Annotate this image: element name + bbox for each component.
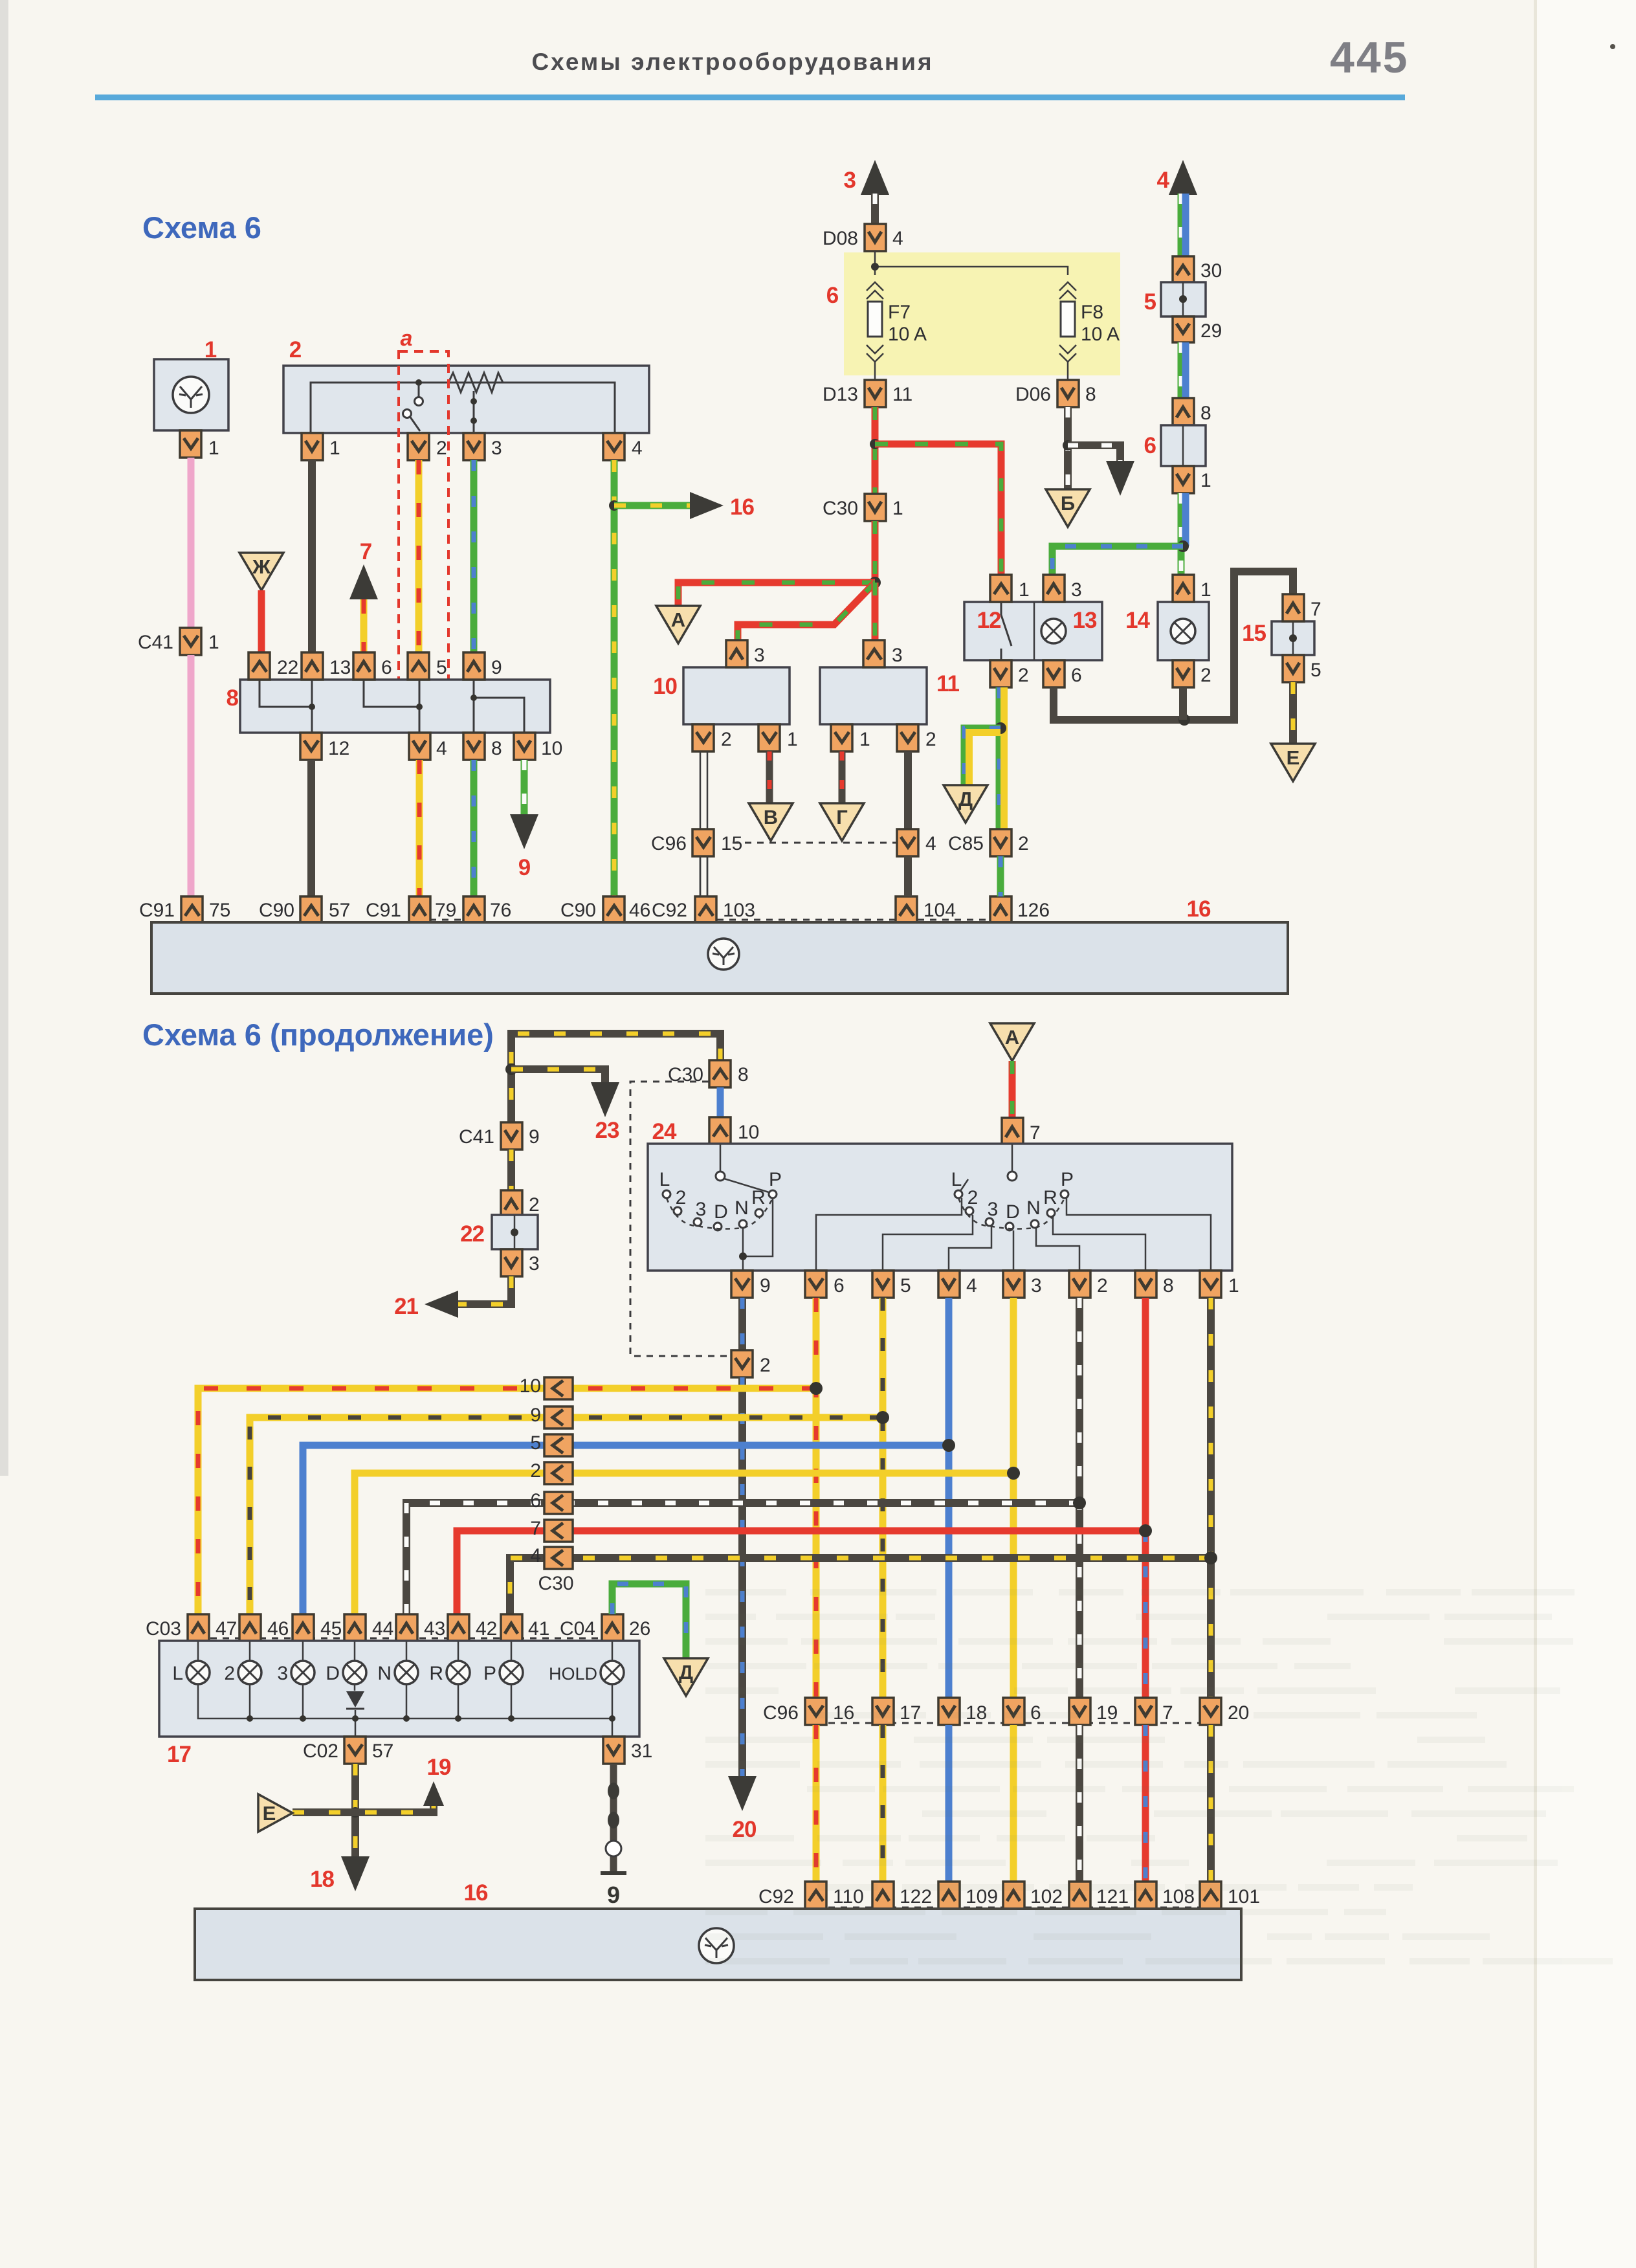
component 1 pin 1 connector — [180, 430, 201, 458]
box12 pin 2 connector — [990, 660, 1011, 687]
wire pin4 down (blue) — [945, 1298, 953, 1698]
wire pin8 down (red then red/blue) — [1142, 1298, 1149, 1531]
svg-text:2: 2 — [676, 1187, 687, 1208]
box 8 top pin 13 — [302, 652, 323, 680]
dark wire from box13 pin6 to connector 7 of box15 — [1054, 572, 1293, 720]
svg-text:2: 2 — [1097, 1275, 1108, 1296]
svg-text:43: 43 — [424, 1618, 445, 1640]
switch symbol box 12 — [1001, 602, 1011, 660]
box14 pin 1 connector — [1173, 575, 1194, 602]
svg-text:14: 14 — [1125, 608, 1150, 633]
box13 pin 3 connector — [1043, 575, 1065, 602]
svg-text:9: 9 — [518, 855, 531, 880]
svg-text:46: 46 — [629, 900, 650, 921]
svg-text:C91: C91 — [139, 900, 175, 921]
fuse internal wiring — [875, 251, 1068, 380]
red/green wire triangle A to pin7 — [1009, 1061, 1016, 1118]
svg-text:N: N — [735, 1197, 749, 1219]
svg-text:57: 57 — [329, 900, 350, 921]
svg-text:D: D — [714, 1201, 728, 1223]
green+blue wire down to junction — [1178, 493, 1185, 575]
svg-text:11: 11 — [892, 384, 912, 405]
C30 column connector 2 — [544, 1462, 573, 1484]
red/green wire C30-1 down to junction — [872, 521, 879, 583]
box 2 pin 3 connector — [463, 433, 485, 460]
svg-text:31: 31 — [631, 1740, 652, 1762]
pink wire C41-1 to C91-75 — [188, 655, 195, 896]
green+blue wire 29 to 8 — [1178, 342, 1185, 402]
svg-text:4: 4 — [436, 738, 447, 759]
svg-text:C04: C04 — [560, 1618, 595, 1640]
box 10 (turn relay) — [683, 667, 790, 724]
box 2 pin 4 connector — [603, 433, 625, 460]
wire box22-3 to arrow 21 — [453, 1276, 511, 1304]
svg-text:21: 21 — [394, 1294, 418, 1319]
svg-text:1: 1 — [1228, 1275, 1239, 1296]
box 24 (gear selector switch) — [648, 1144, 1232, 1271]
wire C41-9 down to box 22 — [507, 1150, 515, 1193]
connector 76 — [463, 896, 485, 924]
svg-text:7: 7 — [530, 1518, 541, 1539]
svg-text:45: 45 — [320, 1618, 342, 1640]
svg-text:2: 2 — [436, 438, 447, 459]
connector C96-19 — [1069, 1698, 1090, 1725]
svg-text:2: 2 — [289, 337, 302, 362]
svg-text:7: 7 — [1162, 1702, 1173, 1724]
component 8 box (relay block) — [240, 680, 550, 733]
ground bus bar 2 — [195, 1909, 1241, 1980]
wire pin1 down (black/yellow) — [1207, 1298, 1215, 1698]
connector C41 pin 1 — [180, 628, 201, 655]
triangle A ground — [656, 606, 700, 643]
svg-text:2: 2 — [530, 1460, 541, 1482]
connector 31 — [603, 1737, 625, 1764]
dashed outline a — [399, 351, 448, 694]
wire to triangle E and arrow 19 — [293, 1793, 434, 1812]
svg-text:79: 79 — [435, 900, 456, 921]
box 11 pin 2 connector — [897, 724, 918, 751]
svg-text:10: 10 — [520, 1375, 541, 1397]
svg-text:4: 4 — [632, 438, 643, 459]
svg-text:Д: Д — [958, 788, 973, 810]
svg-text:3: 3 — [1071, 579, 1082, 601]
connector C90-46 — [603, 896, 625, 924]
wire D06 down (black/white) — [1064, 407, 1072, 489]
svg-text:C03: C03 — [146, 1618, 181, 1640]
connector C85 pin 2 — [990, 829, 1011, 856]
fuse block highlight — [844, 252, 1120, 375]
bus bar 2 chassis symbol — [699, 1928, 734, 1963]
row 5 wire (blue) — [303, 1445, 949, 1614]
connector C30 pin 1 — [865, 494, 886, 521]
svg-text:19: 19 — [427, 1755, 451, 1780]
svg-text:Г: Г — [836, 806, 848, 828]
svg-text:1: 1 — [787, 729, 798, 750]
triangle В ground — [749, 803, 793, 841]
red wire Ж to box8 pin22 — [258, 590, 265, 652]
connector C92-122 — [872, 1882, 894, 1909]
connector 10 of box 24 — [709, 1117, 731, 1144]
connector 7 of box15 — [1283, 594, 1304, 621]
connector 4 mid — [897, 829, 918, 856]
svg-text:8: 8 — [1163, 1275, 1174, 1296]
branch wire to arrow 23 — [511, 1069, 605, 1084]
box 11 (turn relay 2) — [820, 667, 927, 724]
svg-text:76: 76 — [490, 900, 511, 921]
wire pin6 down (yellow/red) — [813, 1298, 820, 1698]
connector 46 — [239, 1614, 261, 1641]
lamps L 2 3 D N R P HOLD — [186, 1661, 210, 1684]
svg-text:26: 26 — [629, 1618, 650, 1640]
arrow 7 up — [349, 564, 378, 599]
box24 bottom pin 4 — [938, 1271, 960, 1298]
svg-text:Ж: Ж — [252, 555, 271, 578]
svg-text:4: 4 — [530, 1545, 541, 1566]
svg-text:F8: F8 — [1081, 302, 1103, 323]
black/yellow wire top of lower schematic — [511, 1034, 720, 1122]
branch to triangle Д — [964, 728, 1000, 785]
connector 42 — [448, 1614, 469, 1641]
svg-text:11: 11 — [936, 671, 960, 696]
svg-text:D: D — [1006, 1201, 1020, 1223]
triangle Д ground — [944, 785, 988, 823]
svg-text:Е: Е — [263, 1802, 276, 1825]
svg-text:1: 1 — [329, 438, 340, 459]
component 2 box (lighting switch) — [283, 366, 649, 433]
svg-text:4: 4 — [925, 833, 936, 854]
svg-text:57: 57 — [372, 1740, 393, 1762]
svg-text:6: 6 — [530, 1490, 541, 1511]
C96 lower row dashed link — [816, 1722, 1211, 1724]
blue/green wire box12 pin2 down — [996, 687, 1003, 829]
connector C92-103 — [695, 896, 716, 924]
wire pin9 down (black/blue) to arrow 20 — [738, 1298, 746, 1350]
svg-text:6: 6 — [1144, 433, 1156, 458]
svg-text:N: N — [377, 1663, 392, 1684]
bleed-through shading — [705, 1589, 1613, 1964]
box 11 pin 1 connector — [831, 724, 852, 751]
wire box15 pin5 to triangle E (black/yellow) — [1289, 682, 1297, 744]
C92 lower row dashed link — [816, 1907, 1211, 1909]
branch to arrow down — [1068, 445, 1120, 461]
svg-text:C30: C30 — [668, 1064, 703, 1085]
connector 43 — [396, 1614, 417, 1641]
fuse F8 symbol — [1059, 282, 1076, 299]
svg-text:6: 6 — [826, 283, 839, 308]
box 14 (lamp) — [1158, 602, 1209, 660]
triangle Д lower — [664, 1658, 708, 1696]
C30 column connector 6 — [544, 1492, 573, 1514]
svg-text:4: 4 — [966, 1275, 977, 1296]
C30 column connector 5 — [544, 1434, 573, 1456]
box24 bottom pin 8 — [1135, 1271, 1156, 1298]
component 1 box (sensor) — [154, 359, 228, 430]
svg-text:Б: Б — [1061, 492, 1075, 515]
svg-text:5: 5 — [436, 657, 447, 678]
connector C91-75 — [181, 896, 203, 924]
C30 column connector 4 — [544, 1547, 573, 1569]
box13 pin 6 connector — [1043, 660, 1065, 687]
blue wire C30-8 to box24 pin10 — [717, 1087, 724, 1117]
ground bus bar 1 — [151, 922, 1288, 994]
svg-text:17: 17 — [167, 1742, 191, 1767]
svg-text:L: L — [172, 1663, 183, 1684]
arrow 18 down — [341, 1856, 370, 1891]
connector C91-79 — [409, 896, 430, 924]
triangle Г ground — [820, 803, 864, 841]
svg-text:Е: Е — [1287, 746, 1300, 769]
svg-text:N: N — [1026, 1197, 1041, 1219]
box24 bottom pin 1 — [1200, 1271, 1221, 1298]
svg-text:2: 2 — [967, 1187, 978, 1208]
wire box2 pin3 to box8 pin9 (green/blue) — [470, 460, 478, 652]
svg-text:1: 1 — [208, 438, 219, 459]
svg-text:10 A: 10 A — [888, 324, 927, 345]
svg-text:10: 10 — [738, 1122, 759, 1143]
row 4 wire (black/yellow) — [510, 1558, 1211, 1614]
connector 7 of box 24 — [1002, 1118, 1023, 1145]
arrow 9 down — [510, 814, 538, 849]
yellow/red wire arrow7 to box8 pin6 — [360, 599, 368, 652]
bottom connector row labels and connectors — [430, 919, 463, 921]
svg-text:P: P — [483, 1663, 496, 1684]
green/blue wire junction to box13 pin3 — [1052, 546, 1183, 575]
svg-text:3: 3 — [529, 1253, 540, 1274]
svg-text:9: 9 — [607, 1882, 620, 1908]
box17 lamp internal wiring — [198, 1641, 612, 1662]
red/green wire to box11 pin3 — [872, 583, 879, 640]
svg-text:D08: D08 — [823, 228, 858, 249]
wire box10 pin1 to triangle B (black/red) — [766, 751, 773, 803]
svg-text:Д: Д — [679, 1661, 693, 1684]
connector 2 dashed-linked — [731, 1350, 753, 1377]
connector C92-110 — [805, 1882, 826, 1909]
svg-text:R: R — [751, 1187, 766, 1208]
box 6 connector housing — [1161, 425, 1206, 466]
svg-text:18: 18 — [310, 1867, 334, 1892]
svg-text:2: 2 — [925, 729, 936, 750]
svg-text:Схема 6 (продолжение): Схема 6 (продолжение) — [142, 1017, 494, 1052]
connector C96 pin 15 — [692, 829, 714, 856]
svg-text:3: 3 — [988, 1199, 999, 1220]
box 8 top pin 9 — [463, 652, 485, 680]
bus bar 1 chassis symbol — [708, 939, 739, 970]
connector 8 right — [1173, 398, 1194, 425]
svg-text:C02: C02 — [303, 1740, 338, 1762]
connector C41 pin 9 — [501, 1122, 522, 1150]
svg-text:16: 16 — [1187, 896, 1211, 922]
svg-text:1: 1 — [204, 337, 217, 362]
svg-text:9: 9 — [530, 1405, 541, 1426]
svg-text:R: R — [1043, 1187, 1057, 1208]
svg-text:126: 126 — [1017, 900, 1050, 921]
svg-text:2: 2 — [224, 1663, 235, 1684]
connector C92-108 — [1135, 1882, 1156, 1909]
row 6 wire (black/white) — [406, 1503, 1079, 1614]
svg-text:3: 3 — [754, 645, 765, 666]
svg-text:1: 1 — [1200, 579, 1211, 601]
box 12-13 (hazard switch and lamp) — [964, 602, 1102, 660]
wire box2 pin4 down (green/yellow) — [611, 460, 618, 896]
svg-text:8: 8 — [738, 1064, 749, 1085]
svg-text:9: 9 — [491, 657, 502, 678]
svg-text:22: 22 — [277, 657, 298, 678]
svg-text:13: 13 — [1073, 608, 1097, 633]
svg-text:D06: D06 — [1015, 384, 1051, 405]
connector C92-121 — [1069, 1882, 1090, 1909]
box 8 top pin 22 — [249, 652, 270, 680]
box 2 internal rail — [311, 383, 615, 433]
box 2 pin 2 connector — [408, 433, 429, 460]
svg-text:L: L — [951, 1169, 962, 1190]
svg-text:23: 23 — [595, 1118, 619, 1143]
green/blue wire C04-26 to triangle Д — [612, 1584, 686, 1658]
svg-text:2: 2 — [529, 1194, 540, 1216]
svg-text:42: 42 — [476, 1618, 497, 1640]
svg-text:D: D — [326, 1663, 340, 1684]
box24 bottom pin 9 — [731, 1271, 753, 1298]
wires C96 row to C92 row — [813, 1725, 820, 1882]
svg-text:9: 9 — [760, 1275, 771, 1296]
svg-text:12: 12 — [328, 738, 349, 759]
svg-text:А: А — [671, 608, 685, 631]
wire box11 pin1 to triangle Г (black/red) — [839, 751, 846, 803]
svg-text:30: 30 — [1200, 260, 1222, 282]
C30 column connector 10 — [544, 1377, 573, 1399]
svg-text:104: 104 — [923, 900, 956, 921]
C03 connector row dashed link — [198, 1638, 612, 1640]
svg-text:C85: C85 — [948, 833, 984, 854]
svg-text:2: 2 — [1018, 833, 1029, 854]
box 2 switch symbol — [415, 379, 422, 386]
svg-text:15: 15 — [721, 833, 742, 854]
svg-text:2: 2 — [1018, 665, 1029, 686]
row 7 wire (red) — [457, 1531, 1145, 1614]
box 8 internal links — [260, 680, 524, 733]
wire C02-57 down (black/yellow) — [351, 1764, 359, 1867]
svg-text:6: 6 — [381, 657, 392, 678]
svg-text:5: 5 — [530, 1432, 541, 1454]
wire box8 pin12 to C90-57 (black) — [307, 760, 315, 896]
svg-text:46: 46 — [267, 1618, 289, 1640]
svg-text:16: 16 — [730, 495, 754, 520]
box24 bottom pin 2 — [1069, 1271, 1090, 1298]
box12 pin 1 connector — [990, 575, 1011, 602]
row 2 wire (yellow) — [355, 1473, 1013, 1614]
svg-text:445: 445 — [1330, 33, 1409, 82]
svg-text:C91: C91 — [366, 900, 401, 921]
wire box8 pin8 to 76 (green/blue) — [470, 760, 478, 896]
row 10 wire (yellow/red) — [198, 1388, 816, 1614]
wire box2 pin2 to box8 pin5 (yellow/red) — [415, 460, 423, 652]
svg-text:C41: C41 — [138, 632, 173, 653]
red/green wire branch to box12 pin1 — [875, 444, 1001, 575]
connector 45 — [293, 1614, 314, 1641]
box 2 pin 1 connector — [302, 433, 323, 460]
svg-text:C92: C92 — [758, 1886, 794, 1907]
connector C92-109 — [938, 1882, 960, 1909]
box24 left selector group — [720, 1144, 722, 1172]
box24 right selector group — [1011, 1144, 1013, 1172]
wire arrow3 to D08 (black/white) — [871, 194, 879, 224]
box 8 bottom pin 12 — [300, 733, 322, 760]
connector C02-57 — [344, 1737, 366, 1764]
arrow 16 right — [690, 492, 724, 519]
box 8 bottom pin 8 — [463, 733, 485, 760]
box24 bottom pin 3 — [1003, 1271, 1024, 1298]
svg-text:6: 6 — [1071, 665, 1082, 686]
svg-text:C90: C90 — [259, 900, 294, 921]
box24 bottom pin 5 — [872, 1271, 894, 1298]
svg-text:C96: C96 — [651, 833, 687, 854]
dashed link C30-8 to connector 2 — [630, 1082, 730, 1356]
svg-text:19: 19 — [1096, 1702, 1118, 1724]
svg-text:3: 3 — [491, 438, 502, 459]
svg-text:8: 8 — [491, 738, 502, 759]
red/green wire to box10 pin3 — [738, 583, 875, 640]
box 5 connector housing — [1161, 282, 1206, 317]
svg-text:1: 1 — [859, 729, 870, 750]
svg-text:3: 3 — [277, 1663, 288, 1684]
svg-text:1: 1 — [892, 498, 903, 519]
connector C96-17 — [872, 1698, 894, 1725]
svg-text:Схема 6: Схема 6 — [142, 210, 261, 245]
svg-text:C30: C30 — [538, 1573, 573, 1594]
svg-text:20: 20 — [1228, 1702, 1249, 1724]
wire box2 pin1 to box8 pin13 (black) — [308, 460, 316, 652]
svg-text:8: 8 — [1085, 384, 1096, 405]
svg-text:75: 75 — [209, 900, 230, 921]
box 8 bottom pin 10 — [514, 733, 535, 760]
svg-text:P: P — [769, 1169, 782, 1190]
svg-text:8: 8 — [1200, 403, 1211, 424]
box 22 connector housing — [492, 1215, 538, 1249]
wire connector31 chain — [610, 1764, 617, 1873]
box 10 pin 3 connector — [726, 640, 747, 667]
wire box14 pin2 to junction — [1179, 687, 1187, 720]
svg-text:1: 1 — [208, 632, 219, 653]
svg-text:12: 12 — [977, 608, 1001, 633]
box 15 connector housing — [1272, 621, 1314, 655]
connector C96-20 — [1200, 1698, 1221, 1725]
svg-text:А: А — [1005, 1026, 1019, 1049]
diode symbol — [346, 1691, 364, 1707]
svg-text:а: а — [401, 326, 413, 351]
svg-text:В: В — [764, 806, 778, 828]
connector C96-18 — [938, 1698, 960, 1725]
box24 internal contact wiring — [816, 1198, 962, 1271]
svg-text:C92: C92 — [652, 900, 687, 921]
white wire box10 pin2 down — [700, 751, 707, 896]
branch wire to arrow 16 — [614, 502, 696, 509]
connector C03-47 — [188, 1614, 209, 1641]
wire C85-2 to 126 — [997, 856, 1004, 896]
svg-text:41: 41 — [528, 1618, 549, 1640]
wire pin3 down (yellow) — [1010, 1298, 1017, 1698]
lamp 13 — [1041, 619, 1066, 643]
svg-text:10: 10 — [653, 674, 677, 699]
svg-text:15: 15 — [1242, 621, 1266, 646]
svg-text:44: 44 — [372, 1618, 393, 1640]
svg-text:6: 6 — [834, 1275, 845, 1296]
svg-text:2: 2 — [760, 1355, 771, 1376]
svg-text:P: P — [1061, 1169, 1074, 1190]
svg-text:D13: D13 — [823, 384, 858, 405]
svg-text:7: 7 — [1030, 1122, 1041, 1144]
svg-text:22: 22 — [460, 1221, 484, 1247]
svg-text:13: 13 — [329, 657, 351, 678]
box 11 pin 3 connector — [863, 640, 885, 667]
